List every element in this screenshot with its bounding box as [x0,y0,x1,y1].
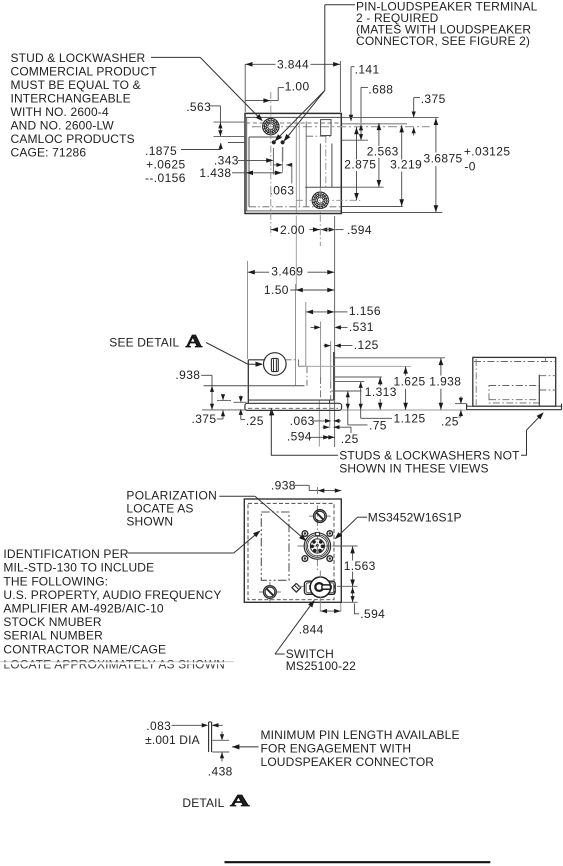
svg-text:CAMLOC PRODUCTS: CAMLOC PRODUCTS [11,132,135,146]
svg-text:+.03125: +.03125 [464,144,511,158]
svg-text:SERIAL NUMBER: SERIAL NUMBER [3,629,103,643]
svg-text:1.50: 1.50 [264,283,289,297]
svg-text:3.219: 3.219 [390,158,422,172]
svg-text:+.0625: +.0625 [146,158,185,172]
svg-text:.594: .594 [360,607,385,621]
svg-text:LOCATE AS: LOCATE AS [126,502,193,516]
svg-text:3.469: 3.469 [271,265,303,279]
svg-text:.141: .141 [355,62,380,76]
svg-text:SEE DETAIL: SEE DETAIL [109,335,179,349]
svg-text:2.875: 2.875 [344,158,376,172]
svg-text:.25: .25 [441,415,459,429]
svg-text:COMMERCIAL PRODUCT: COMMERCIAL PRODUCT [11,65,158,79]
svg-text:.063: .063 [270,184,295,198]
svg-text:1.156: 1.156 [349,304,381,318]
svg-text:.531: .531 [349,320,374,334]
svg-text:.688: .688 [368,83,393,97]
svg-text:.1875: .1875 [145,144,177,158]
svg-text:.083: .083 [146,719,171,733]
svg-text:MIL-STD-130 TO INCLUDE: MIL-STD-130 TO INCLUDE [3,561,154,575]
svg-text:1.438: 1.438 [199,166,231,180]
svg-text:SHOWN IN THESE VIEWS: SHOWN IN THESE VIEWS [339,461,488,475]
svg-text:.594: .594 [347,223,372,237]
svg-text:.375: .375 [192,412,217,426]
svg-text:INTERCHANGEABLE: INTERCHANGEABLE [11,92,131,106]
svg-text:LOUDSPEAKER CONNECTOR: LOUDSPEAKER CONNECTOR [261,755,435,769]
svg-text:1.938: 1.938 [429,374,461,388]
svg-text:STUD & LOCKWASHER: STUD & LOCKWASHER [11,51,146,65]
svg-text:3.844: 3.844 [277,58,309,72]
svg-text:SHOWN: SHOWN [126,515,173,529]
svg-text:1.00: 1.00 [285,80,310,94]
svg-text:.594: .594 [287,430,312,444]
svg-text:.75: .75 [369,419,387,433]
svg-text:.125: .125 [354,338,379,352]
svg-text:3.6875: 3.6875 [424,151,463,165]
svg-text:±.001 DIA: ±.001 DIA [145,733,200,747]
svg-text:.844: .844 [299,623,324,637]
svg-text:.375: .375 [421,92,446,106]
svg-text:AND NO. 2600-LW: AND NO. 2600-LW [11,119,115,133]
svg-text:U.S. PROPERTY, AUDIO FREQUENCY: U.S. PROPERTY, AUDIO FREQUENCY [3,588,221,602]
svg-text:--.0156: --.0156 [145,171,186,185]
svg-text:1.125: 1.125 [394,412,426,426]
svg-text:MINIMUM PIN LENGTH AVAILABLE: MINIMUM PIN LENGTH AVAILABLE [261,728,460,742]
svg-text:THE FOLLOWING:: THE FOLLOWING: [3,574,108,588]
svg-text:.563: .563 [186,100,211,114]
svg-text:A: A [186,331,203,351]
svg-text:-0: -0 [464,159,475,173]
svg-text:.25: .25 [246,414,264,428]
svg-text:STOCK NMUBER: STOCK NMUBER [3,615,101,629]
svg-text:STUDS & LOCKWASHERS NOT: STUDS & LOCKWASHERS NOT [339,448,520,462]
svg-text:DETAIL: DETAIL [182,796,224,810]
svg-text:AMPLIFIER AM-492B/AIC-10: AMPLIFIER AM-492B/AIC-10 [3,602,163,616]
svg-text:1.625: 1.625 [394,374,426,388]
svg-text:1.563: 1.563 [344,559,376,573]
svg-text:A: A [230,791,250,810]
svg-text:.25: .25 [341,432,359,446]
svg-text:MS25100-22: MS25100-22 [286,659,356,673]
svg-text:MS3452W16S1P: MS3452W16S1P [368,510,462,524]
svg-text:FOR ENGAGEMENT WITH: FOR ENGAGEMENT WITH [261,742,412,756]
svg-text:2.00: 2.00 [280,223,305,237]
svg-text:WITH NO. 2600-4: WITH NO. 2600-4 [11,105,109,119]
svg-text:.938: .938 [175,368,200,382]
svg-text:.063: .063 [290,414,315,428]
svg-text:CAGE: 71286: CAGE: 71286 [11,146,87,160]
svg-text:.438: .438 [208,764,233,778]
svg-text:CONNECTOR, SEE FIGURE 2): CONNECTOR, SEE FIGURE 2) [356,34,530,48]
svg-text:.938: .938 [271,479,296,493]
svg-text:CONTRACTOR NAME/CAGE: CONTRACTOR NAME/CAGE [3,642,166,656]
svg-text:MUST BE EQUAL TO &: MUST BE EQUAL TO & [11,78,141,92]
svg-text:IDENTIFICATION PER: IDENTIFICATION PER [3,547,128,561]
svg-text:1.313: 1.313 [365,385,397,399]
